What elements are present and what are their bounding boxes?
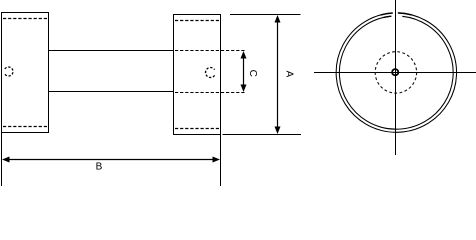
svg-text:A: A bbox=[283, 71, 294, 78]
svg-text:C: C bbox=[247, 70, 258, 77]
svg-text:B: B bbox=[96, 162, 103, 173]
